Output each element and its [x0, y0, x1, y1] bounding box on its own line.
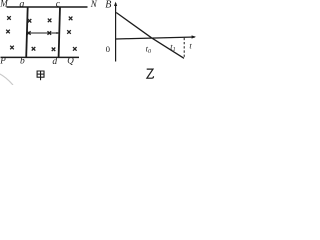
B(t) line [116, 13, 184, 59]
caption jia [37, 71, 44, 80]
flux cross row3 col4 [73, 47, 77, 51]
flux cross row2 col2 [27, 31, 31, 35]
svg-text:t: t [189, 40, 192, 50]
svg-text:a: a [19, 0, 24, 10]
scan artifact streak [0, 74, 13, 86]
flux cross row1 col3 [48, 19, 52, 23]
axis B vertical [115, 3, 117, 62]
flux cross row1 col2 [28, 19, 32, 23]
svg-text:Q: Q [67, 56, 74, 66]
svg-text:M: M [0, 0, 8, 9]
svg-text:t0: t0 [146, 44, 151, 55]
svg-text:b: b [20, 56, 25, 66]
flux cross row1 col4 [69, 17, 73, 21]
flux cross row3 col2 [32, 47, 36, 51]
svg-text:d: d [52, 57, 57, 67]
flux cross row2 col3 [48, 31, 52, 35]
svg-text:P: P [0, 55, 6, 65]
svg-text:B: B [105, 0, 111, 11]
bar cd [59, 7, 60, 58]
axis t horizontal [116, 37, 195, 39]
flux cross row3 col1 [10, 46, 14, 50]
connecting rod with arrow [27, 32, 59, 34]
flux cross row2 col1 [6, 30, 10, 34]
svg-text:0: 0 [106, 44, 111, 54]
rail MN top [7, 6, 88, 8]
svg-text:t1: t1 [170, 42, 175, 53]
dashed line t1 [183, 38, 185, 58]
caption yi [147, 69, 154, 78]
flux cross row3 col3 [52, 48, 56, 52]
flux cross row1 col1 [7, 16, 11, 20]
rail PQ bottom [1, 56, 80, 58]
flux cross row2 col4 [67, 30, 71, 34]
bar ab [26, 7, 28, 58]
svg-text:N: N [90, 0, 98, 9]
